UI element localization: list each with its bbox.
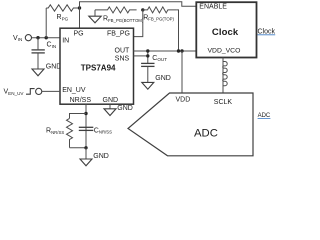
ground NR/SS xyxy=(80,159,92,166)
svg-text:GND: GND xyxy=(103,97,119,104)
node SNS join xyxy=(146,54,149,57)
node FB_PG xyxy=(141,8,144,11)
svg-text:IN: IN xyxy=(62,37,69,44)
wire OUT to COUT xyxy=(147,51,149,63)
wire PG to pin xyxy=(79,8,81,28)
svg-text:SNS: SNS xyxy=(115,55,130,62)
wire PG to ENABLE xyxy=(80,2,197,8)
IC U1 TPS7A94 xyxy=(60,28,134,104)
resistor RFB_PG_BOTTOM xyxy=(95,7,137,13)
wire RNRSS bottom xyxy=(70,147,87,149)
ground IC GND pin xyxy=(104,109,116,116)
svg-text:SCLK: SCLK xyxy=(214,99,233,106)
node RPG tap xyxy=(45,36,48,39)
svg-text:GND: GND xyxy=(93,153,109,160)
svg-text:OUT: OUT xyxy=(115,48,131,55)
wire FB_PG node to pin xyxy=(134,10,143,37)
input terminal VIN xyxy=(25,35,31,41)
svg-text:EN_UV: EN_UV xyxy=(62,87,86,94)
inductor coiled lead xyxy=(223,62,228,86)
node NR/SS top xyxy=(84,112,87,115)
svg-text:Clock: Clock xyxy=(212,27,239,38)
capacitor COUT xyxy=(141,62,154,64)
IC GND pin wire xyxy=(109,104,111,109)
wire EN_UV xyxy=(42,90,60,92)
resistor RNRSS xyxy=(67,118,73,147)
node NR/SS bottom xyxy=(84,146,87,149)
clock block xyxy=(196,2,256,57)
svg-text:VDD_VCO: VDD_VCO xyxy=(208,48,241,55)
svg-text:NR/SS: NR/SS xyxy=(70,97,92,104)
svg-text:GND: GND xyxy=(46,64,62,71)
wire CIN stem top xyxy=(37,38,39,50)
wire to RNRSS xyxy=(70,114,87,119)
wire NR/SS xyxy=(85,104,87,148)
node OUT VDD xyxy=(180,49,183,52)
svg-text:GND: GND xyxy=(117,105,133,112)
wire RFB_PG_TOP to OUT rail xyxy=(177,10,179,51)
node OUT RFBtop xyxy=(177,49,180,52)
svg-text:FB_PG: FB_PG xyxy=(107,31,130,38)
capacitor CIN xyxy=(32,49,45,51)
resistor RPG xyxy=(46,5,79,11)
svg-text:PG: PG xyxy=(74,31,84,38)
ADC block xyxy=(128,93,253,156)
wire VIN to IN pin xyxy=(32,37,60,39)
wire OUT rail xyxy=(134,50,197,52)
wire COUT stem xyxy=(147,67,149,82)
wire VDD branch to ADC xyxy=(181,51,183,93)
wire SNS xyxy=(134,55,148,57)
svg-text:TPS7A94: TPS7A94 xyxy=(81,64,116,73)
ground FB divider xyxy=(94,10,96,16)
svg-text:ENABLE: ENABLE xyxy=(199,4,227,11)
wire RPG riser xyxy=(45,8,47,38)
ground COUT xyxy=(142,82,154,89)
wire VDD_VCO to SCLK xyxy=(222,58,224,94)
resistor RFB_PG_TOP xyxy=(143,7,177,13)
capacitor CNRSS xyxy=(79,126,94,128)
ground CIN xyxy=(32,69,44,76)
node OUT COUT xyxy=(146,49,149,52)
node PG xyxy=(78,6,81,9)
wire to ground xyxy=(85,148,87,159)
svg-text:VDD: VDD xyxy=(176,96,191,103)
svg-text:GND: GND xyxy=(155,75,171,82)
svg-text:Clock: Clock xyxy=(258,28,276,35)
svg-text:ADC: ADC xyxy=(194,128,218,140)
node CIN tap xyxy=(36,36,39,39)
wire CIN stem bottom xyxy=(37,54,39,70)
